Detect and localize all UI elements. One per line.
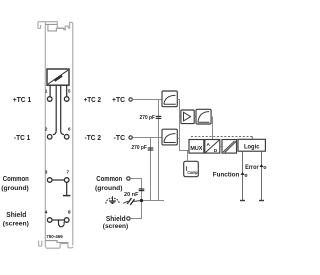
svg-text:-TC 1: -TC 1 (14, 133, 30, 142)
stub to amp in (180, 116, 181, 118)
svg-text:+TC 2: +TC 2 (84, 95, 101, 104)
filter box F3 (196, 109, 211, 124)
capacitor on common line (139, 189, 145, 191)
terminal 2 (47, 135, 52, 140)
ground symbol below terminal 7 (63, 182, 70, 195)
converter box U1 with diagonal (47, 69, 69, 85)
wire +TC to filter box1 (133, 99, 163, 101)
svg-text:3: 3 (45, 170, 48, 176)
svg-text:Logic: Logic (244, 144, 260, 150)
svg-text:D: D (214, 148, 218, 154)
stub MUX to A/D (204, 145, 205, 147)
top profile (38, 22, 73, 246)
input terminal circle Shield (127, 217, 130, 220)
inner top detail (45, 24, 66, 31)
diagonal line (48, 70, 68, 84)
svg-text:(screen): (screen) (3, 220, 29, 227)
wire Comp to MUX input (187, 151, 189, 162)
inner bottom detail (45, 241, 68, 243)
wire -TC to filter box2 (133, 137, 163, 139)
Error chassis bar (259, 200, 264, 202)
svg-text:7: 7 (66, 170, 69, 176)
svg-text:Common: Common (3, 176, 29, 183)
bus wire from filters to MUX (177, 100, 189, 151)
stub isolation to Logic (237, 145, 239, 147)
svg-text:8: 8 (68, 210, 71, 216)
svg-text:MUX: MUX (190, 146, 202, 152)
Function chassis bar (240, 200, 245, 202)
svg-text:(screen): (screen) (103, 223, 128, 230)
stub A/D to isolation (220, 145, 222, 147)
terminal 5 (64, 97, 69, 102)
hook to terminal 6 (61, 131, 64, 135)
svg-text:270 pF: 270 pF (140, 115, 156, 121)
Function arrow symbol (240, 172, 244, 175)
svg-text:20 nF: 20 nF (124, 192, 139, 198)
left clip hook top (38, 22, 41, 29)
svg-text:Error: Error (245, 164, 259, 171)
svg-text:(ground): (ground) (1, 185, 28, 192)
svg-text:Common: Common (96, 176, 122, 183)
svg-text:270 pF: 270 pF (131, 145, 147, 151)
svg-text:Comp: Comp (187, 170, 197, 176)
junction node dot (140, 199, 143, 202)
input terminal circle -TC (129, 136, 132, 139)
Comp box (184, 161, 199, 176)
ground bus horizontal (142, 200, 165, 202)
svg-text:Shield: Shield (6, 212, 26, 219)
amplifier A1 (181, 110, 194, 124)
wire terminal 4 to 8 (52, 219, 64, 221)
middle leg pair down (55, 85, 57, 131)
wire terminal 3 to 7 (52, 179, 64, 181)
svg-text:Function: Function (213, 171, 240, 178)
Function output drop (242, 151, 244, 200)
svg-text:750-469: 750-469 (46, 234, 63, 240)
hook to terminal 2 (53, 131, 56, 135)
stub amp to filter F3 (194, 116, 196, 118)
terminal 7 (64, 178, 69, 183)
svg-text:-TC 2: -TC 2 (85, 133, 101, 142)
terminal circles col1/col2 rows 1-4 (47, 97, 69, 223)
legs from converter box (50, 85, 67, 134)
filter box F2 (162, 129, 177, 145)
terminal 8 (64, 218, 69, 223)
input terminal circle Common (127, 177, 130, 180)
svg-text:6: 6 (68, 126, 71, 132)
earth symbol (106, 196, 119, 203)
+TC rail drop (158, 100, 160, 201)
capacitor C1 270pF plates (156, 116, 162, 118)
-TC rail drop (150, 138, 152, 201)
wire F3 to A/D (211, 117, 213, 140)
terminal 1 (47, 97, 52, 102)
Error output drop (261, 151, 263, 200)
terminal numbers (45, 89, 71, 216)
svg-text:1: 1 (45, 89, 48, 95)
stub box2 out (177, 138, 179, 140)
svg-text:5: 5 (68, 89, 71, 95)
module 750-469 outline (38, 22, 73, 249)
svg-text:A: A (207, 142, 211, 148)
galvanic isolation box (222, 140, 237, 154)
left edge (45, 22, 46, 248)
leg to terminal 1 (49, 85, 51, 96)
terminal 3 (47, 178, 52, 183)
leg to terminal 5 (66, 85, 68, 96)
bottom boot profile (46, 244, 73, 249)
shield hook symbol (59, 220, 65, 227)
bottom left clip u (39, 241, 42, 247)
terminal 4 (47, 218, 52, 223)
dashed digital boundary (191, 137, 252, 140)
Error arrow symbol (259, 164, 263, 167)
capacitor C2 270pF plates (148, 148, 154, 150)
capacitor 20nF oblique plates (123, 198, 141, 205)
terminal 6 (64, 135, 69, 140)
MUX box (189, 140, 204, 154)
svg-text:(ground): (ground) (95, 185, 123, 192)
A/D converter box (205, 140, 220, 155)
input terminal circle +TC (129, 98, 132, 101)
svg-text:+TC 1: +TC 1 (13, 95, 32, 104)
diagonal hatch thick middle (55, 76, 63, 81)
wire Common to shield rail (130, 179, 141, 219)
filter box F1 (162, 91, 177, 107)
svg-text:+TC: +TC (112, 95, 126, 104)
svg-text:2: 2 (45, 126, 48, 132)
svg-text:-TC: -TC (114, 133, 126, 142)
Logic box (238, 139, 265, 151)
svg-text:4: 4 (45, 210, 48, 216)
